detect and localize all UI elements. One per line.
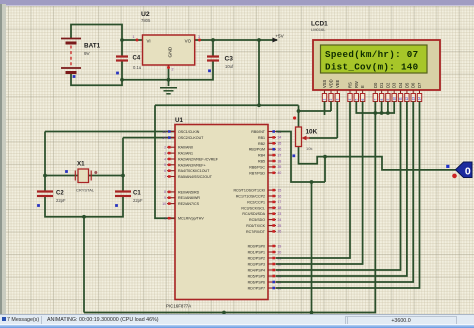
svg-text:5: 5: [355, 99, 359, 101]
svg-text:RB0/INT: RB0/INT: [251, 130, 266, 134]
svg-text:+5V: +5V: [275, 34, 284, 39]
svg-text:RC0/T1OSO/T1CKI: RC0/T1OSO/T1CKI: [233, 189, 265, 193]
svg-text:VEE: VEE: [335, 80, 340, 88]
svg-text:RB3/PGM: RB3/PGM: [249, 148, 265, 152]
svg-text:2: 2: [329, 99, 333, 101]
svg-text:RC5/SDO: RC5/SDO: [249, 218, 265, 222]
svg-text:U2: U2: [141, 11, 150, 18]
svg-text:10k: 10k: [306, 146, 312, 151]
svg-text:C2: C2: [56, 191, 64, 197]
svg-text:38: 38: [278, 159, 282, 163]
svg-text:9: 9: [386, 99, 390, 101]
svg-text:MCLR/Vpp/THV: MCLR/Vpp/THV: [178, 217, 204, 221]
svg-text:RC3/SCK/SCL: RC3/SCK/SCL: [241, 206, 265, 210]
svg-text:24: 24: [278, 218, 282, 222]
svg-text:RA1/AN1: RA1/AN1: [178, 152, 193, 156]
svg-text:D3: D3: [392, 82, 397, 88]
svg-text:12: 12: [405, 97, 409, 101]
svg-text:25: 25: [278, 224, 282, 228]
svg-text:VO: VO: [185, 39, 192, 44]
svg-text:RC6/TX/CK: RC6/TX/CK: [246, 224, 265, 228]
svg-text:RD4/PSP4: RD4/PSP4: [248, 269, 265, 273]
svg-text:RB4: RB4: [258, 154, 265, 158]
svg-text:1: 1: [164, 217, 166, 221]
svg-text:VSS: VSS: [322, 80, 327, 88]
svg-text:14: 14: [418, 97, 422, 101]
svg-text:37: 37: [278, 153, 282, 157]
svg-text:7: 7: [164, 175, 166, 179]
svg-text:6: 6: [164, 169, 166, 173]
svg-text:RD1/PSP1: RD1/PSP1: [248, 251, 265, 255]
svg-text:X1: X1: [77, 161, 85, 168]
svg-text:1: 1: [133, 35, 135, 39]
svg-text:11: 11: [399, 97, 403, 101]
svg-text:14: 14: [162, 136, 166, 140]
svg-text:RA0/AN0: RA0/AN0: [178, 146, 193, 150]
svg-text:RA5/AN4/SS/C2OUT: RA5/AN4/SS/C2OUT: [178, 175, 213, 179]
svg-text:20: 20: [278, 250, 282, 254]
svg-text:RD7/PSP7: RD7/PSP7: [248, 287, 265, 291]
svg-text:U1: U1: [175, 117, 183, 124]
svg-text:35: 35: [278, 142, 282, 146]
svg-text:RA4/T0CKI/C1OUT: RA4/T0CKI/C1OUT: [178, 169, 210, 173]
svg-text:RC1/T1OSI/CCP2: RC1/T1OSI/CCP2: [236, 195, 265, 199]
svg-text:3: 3: [164, 151, 166, 155]
svg-text:4: 4: [348, 99, 352, 101]
svg-text:RB1: RB1: [258, 136, 265, 140]
svg-text:C1: C1: [133, 191, 141, 197]
svg-text:8: 8: [380, 99, 384, 101]
svg-text:VDD: VDD: [329, 79, 334, 88]
svg-text:39: 39: [278, 165, 282, 169]
svg-text:3: 3: [336, 99, 340, 101]
svg-text:RB2: RB2: [258, 142, 265, 146]
svg-text:0.1u: 0.1u: [133, 65, 142, 70]
svg-text:LM016L: LM016L: [311, 27, 326, 32]
svg-text:13: 13: [162, 130, 166, 134]
svg-text:6: 6: [361, 99, 365, 101]
svg-text:D7: D7: [417, 82, 422, 88]
svg-text:D4: D4: [398, 82, 403, 88]
svg-text:PIC16F877A: PIC16F877A: [166, 304, 191, 309]
svg-text:7: 7: [374, 99, 378, 101]
svg-text:VI: VI: [147, 39, 151, 44]
svg-text:5: 5: [164, 163, 166, 167]
svg-text:RA2/AN2/VREF-/CVREF: RA2/AN2/VREF-/CVREF: [178, 158, 219, 162]
svg-text:RD6/PSP6: RD6/PSP6: [248, 281, 265, 285]
svg-text:Dist_Cov(m): 140: Dist_Cov(m): 140: [325, 62, 419, 73]
svg-text:1: 1: [323, 99, 327, 101]
svg-text:13: 13: [411, 97, 415, 101]
svg-text:4: 4: [164, 157, 166, 161]
svg-text:10uf: 10uf: [225, 64, 234, 69]
svg-text:E: E: [360, 85, 365, 88]
svg-text:BAT1: BAT1: [84, 43, 101, 50]
svg-text:18: 18: [278, 206, 282, 210]
svg-text:D6: D6: [411, 82, 416, 88]
svg-text:RB6/PGC: RB6/PGC: [249, 165, 265, 169]
svg-text:RC4/SDI/SDA: RC4/SDI/SDA: [242, 212, 265, 216]
svg-text:OSC2/CLKOUT: OSC2/CLKOUT: [178, 136, 204, 140]
svg-text:D0: D0: [373, 82, 378, 88]
svg-text:19: 19: [278, 244, 282, 248]
svg-text:8: 8: [164, 190, 166, 194]
svg-text:16: 16: [278, 194, 282, 198]
svg-text:22pF: 22pF: [56, 198, 66, 203]
svg-text:9V: 9V: [84, 51, 91, 56]
svg-text:2: 2: [172, 68, 174, 72]
svg-text:C4: C4: [133, 56, 141, 62]
svg-text:RC2/CCP1: RC2/CCP1: [247, 200, 265, 204]
svg-text:RW: RW: [354, 81, 359, 88]
svg-text:0: 0: [465, 165, 471, 177]
svg-text:22pF: 22pF: [133, 198, 143, 203]
svg-text:23: 23: [278, 212, 282, 216]
svg-text:17: 17: [278, 200, 282, 204]
svg-text:26: 26: [278, 230, 282, 234]
svg-text:Speed(km/hr): 07: Speed(km/hr): 07: [325, 49, 419, 60]
svg-text:15: 15: [278, 188, 282, 192]
svg-text:D1: D1: [379, 82, 384, 88]
svg-text:RB5: RB5: [258, 160, 265, 164]
svg-text:RD2/PSP2: RD2/PSP2: [248, 257, 265, 261]
svg-text:C3: C3: [225, 56, 234, 63]
svg-text:D2: D2: [385, 82, 390, 88]
svg-text:RB7/PGD: RB7/PGD: [249, 171, 265, 175]
svg-text:7805: 7805: [141, 18, 151, 23]
svg-text:RE1/AN6/WR: RE1/AN6/WR: [178, 196, 200, 200]
svg-text:3: 3: [198, 35, 200, 39]
svg-text:RD5/PSP5: RD5/PSP5: [248, 275, 265, 279]
svg-text:9: 9: [164, 196, 166, 200]
svg-text:2: 2: [164, 146, 166, 150]
svg-text:34: 34: [278, 136, 282, 140]
svg-text:CRYSTAL: CRYSTAL: [76, 188, 95, 193]
svg-text:40: 40: [278, 171, 282, 175]
svg-text:RD3/PSP3: RD3/PSP3: [248, 263, 265, 267]
svg-text:RC7/RX/DT: RC7/RX/DT: [246, 230, 266, 234]
svg-text:RE0/AN5/RD: RE0/AN5/RD: [178, 190, 200, 194]
svg-text:D5: D5: [404, 82, 409, 88]
svg-text:10K: 10K: [306, 129, 318, 136]
svg-text:OSC1/CLKIN: OSC1/CLKIN: [178, 130, 200, 134]
svg-text:10: 10: [162, 202, 166, 206]
svg-text:10: 10: [392, 97, 396, 101]
svg-text:RE2/AN7/CS: RE2/AN7/CS: [178, 202, 200, 206]
svg-text:GND: GND: [168, 46, 174, 57]
svg-text:RD0/PSP0: RD0/PSP0: [248, 245, 265, 249]
svg-text:36: 36: [278, 148, 282, 152]
svg-text:RS: RS: [348, 82, 353, 88]
svg-text:RA3/AN3/VREF+: RA3/AN3/VREF+: [178, 163, 206, 167]
